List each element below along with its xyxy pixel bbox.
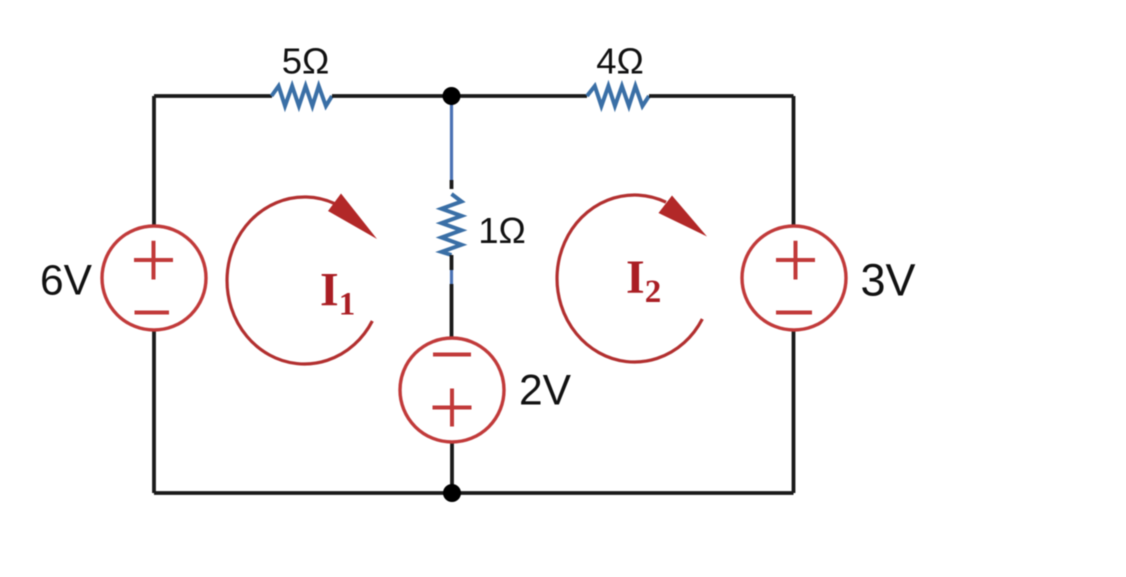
V2 minus sign (top)	[433, 353, 471, 357]
svg-text:5Ω: 5Ω	[282, 41, 330, 82]
wire middle black segment above R3	[450, 180, 454, 189]
svg-text:6V: 6V	[40, 258, 93, 305]
V3 minus sign	[776, 311, 812, 315]
voltage source V3 3V circle	[742, 226, 846, 330]
wire left upper (top corner down to V1)	[152, 96, 156, 226]
voltage source V1 6V circle	[102, 226, 206, 330]
wire right upper (top corner down to V3)	[792, 96, 796, 226]
wire top left (from left corner to R1)	[154, 94, 272, 98]
V2 plus sign (bottom)	[433, 389, 472, 427]
wire top right (R2 to right corner)	[649, 94, 794, 98]
mesh current I2 loop arc	[557, 195, 702, 362]
resistor R2 4ohm zigzag	[587, 86, 649, 106]
wire middle (V2 down to node B)	[450, 442, 454, 493]
V3 plus sign	[776, 241, 815, 280]
mesh current I1 arrowhead	[328, 194, 377, 240]
wire bottom (left corner to right corner through node B)	[154, 491, 794, 495]
wire middle blue segment below R3	[450, 270, 453, 284]
mesh current I2 arrowhead	[659, 196, 708, 237]
resistor R3 1ohm zigzag	[442, 194, 462, 255]
node B junction dot	[443, 484, 461, 502]
wire middle (down to V2)	[450, 284, 454, 338]
node A junction dot	[443, 87, 461, 105]
wire right lower (V3 down to bottom corner)	[792, 330, 796, 493]
resistor R1 5ohm zigzag	[272, 86, 333, 106]
wire top middle (R1 to R2 through node A)	[332, 94, 587, 98]
svg-text:2V: 2V	[519, 368, 572, 415]
V1 minus sign	[135, 311, 170, 315]
wire middle black segment below R3	[450, 255, 454, 270]
svg-text:I2: I2	[626, 251, 661, 310]
svg-text:I1: I1	[320, 264, 355, 323]
svg-text:4Ω: 4Ω	[596, 41, 644, 82]
V1 plus sign	[134, 241, 173, 280]
voltage source V2 2V circle	[400, 338, 504, 442]
svg-text:3V: 3V	[860, 255, 915, 306]
mesh current I1 loop arc	[227, 197, 372, 364]
wire middle blue lead (node A down to R3)	[450, 100, 453, 180]
wire left lower (V1 down to bottom corner)	[152, 330, 156, 493]
svg-text:1Ω: 1Ω	[478, 210, 526, 251]
